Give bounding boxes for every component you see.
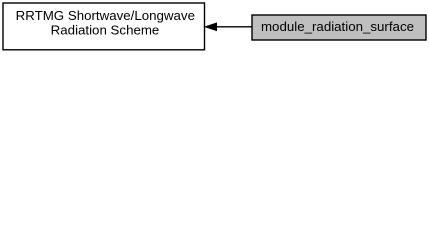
- node: RRTMG scheme box: [3, 3, 205, 50]
- edge wire: [216, 26, 252, 28]
- svg-text:module_radiation_surface: module_radiation_surface: [261, 19, 414, 34]
- arrowhead: [205, 23, 216, 30]
- caller-graph diagram: [0, 0, 429, 56]
- svg-text:Radiation Scheme: Radiation Scheme: [51, 22, 160, 37]
- background: [0, 0, 429, 56]
- svg-text:RRTMG Shortwave/Longwave: RRTMG Shortwave/Longwave: [16, 8, 195, 23]
- node: module_radiation_surface box: [252, 15, 426, 40]
